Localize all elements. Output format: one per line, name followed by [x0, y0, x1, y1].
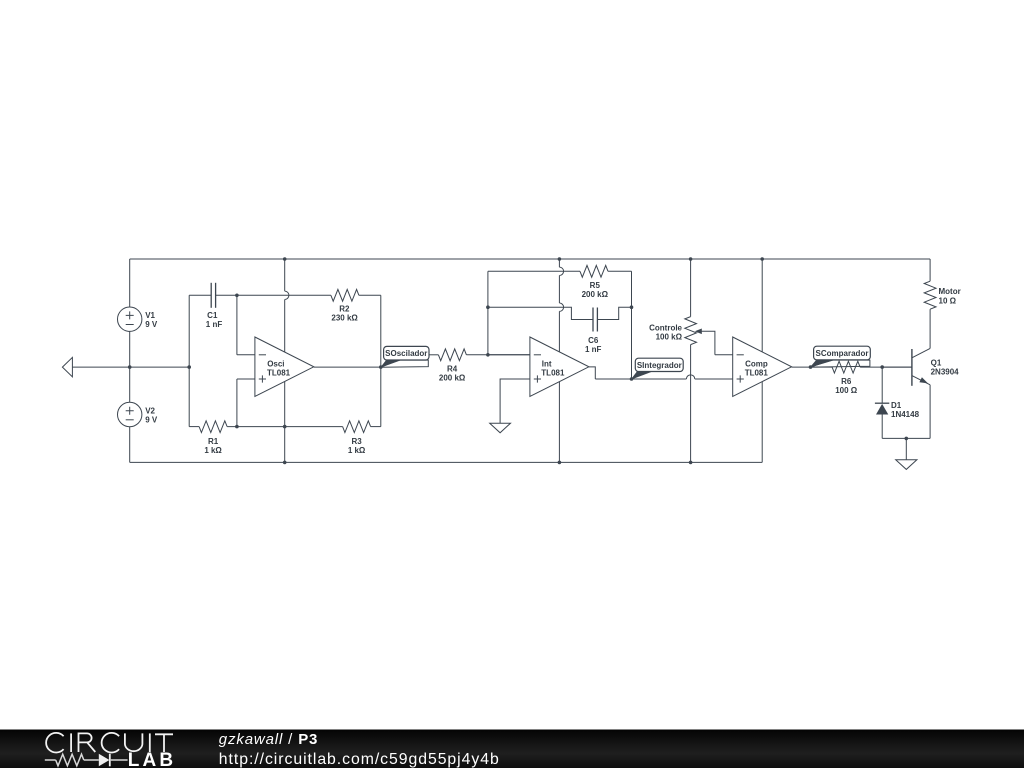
- svg-text:V1: V1: [145, 311, 155, 320]
- svg-text:200 kΩ: 200 kΩ: [439, 374, 466, 383]
- op-amp Comp TL081: [733, 337, 792, 397]
- resistor R6: [811, 366, 833, 368]
- svg-text:Q1: Q1: [931, 359, 942, 368]
- wire op-amp Comp output: [792, 366, 811, 368]
- svg-text:Int: Int: [542, 359, 552, 368]
- svg-text:R3: R3: [351, 437, 362, 446]
- svg-text:LAB: LAB: [128, 750, 176, 768]
- wire bottom supply rail: [130, 461, 763, 463]
- svg-text:1 kΩ: 1 kΩ: [204, 446, 222, 455]
- svg-text:100 Ω: 100 Ω: [835, 386, 858, 395]
- wire op-amp Int output step: [589, 367, 595, 379]
- resistor R2: [237, 294, 331, 296]
- net flag SIntegrador: [632, 372, 652, 380]
- wire op-amp Int inverting input: [488, 354, 530, 356]
- svg-text:R6: R6: [841, 377, 852, 386]
- wire V1 to top rail: [129, 259, 131, 307]
- svg-text:SOscilador: SOscilador: [385, 349, 427, 358]
- svg-text:Motor: Motor: [939, 287, 961, 296]
- wire R5-C6 right vertical: [631, 271, 633, 379]
- svg-text:10 Ω: 10 Ω: [939, 296, 957, 305]
- svg-text:200 kΩ: 200 kΩ: [582, 290, 609, 299]
- potentiometer Controle 100k: [690, 259, 692, 317]
- svg-text:1N4148: 1N4148: [891, 410, 920, 419]
- wire op-amp Osci V- supply pin: [284, 381, 286, 462]
- resistor R1: [189, 426, 199, 428]
- resistor Motor 10 ohm: [929, 259, 931, 281]
- svg-text:TL081: TL081: [745, 368, 769, 377]
- wire left loop vertical (ground leg): [188, 295, 190, 426]
- resistor R3: [343, 421, 371, 433]
- svg-text:R5: R5: [590, 281, 601, 290]
- wire emitter net: [882, 437, 930, 439]
- wire op-amp Osci output: [314, 366, 381, 368]
- transistor Q1 2N3904: [911, 349, 913, 386]
- wire op-amp Osci V+ supply pin: [284, 259, 286, 291]
- svg-text:9 V: 9 V: [145, 320, 158, 329]
- voltage source V1: [118, 307, 142, 331]
- wire op-amp Comp V+ supply pin: [761, 259, 763, 352]
- wire non-inverting node vertical: [236, 379, 238, 427]
- wire op-amp Comp inverting input: [715, 354, 733, 356]
- wire R3 right leg up to output node: [380, 367, 382, 427]
- wire mid (input) net: [72, 366, 189, 368]
- voltage source V2: [118, 402, 142, 426]
- svg-text:Comp: Comp: [745, 359, 768, 368]
- svg-text:SComparador: SComparador: [816, 349, 869, 358]
- wire R5-C6 left vertical: [487, 271, 489, 355]
- svg-text:R1: R1: [208, 437, 219, 446]
- svg-text:230 kΩ: 230 kΩ: [331, 314, 358, 323]
- wire V2 to bottom rail: [129, 427, 131, 463]
- svg-text:9 V: 9 V: [145, 416, 158, 425]
- wire op-amp Osci non-inverting input stub: [237, 378, 255, 380]
- net flag SOscilador: [381, 360, 429, 367]
- op-amp Osci TL081: [255, 337, 314, 397]
- svg-text:R2: R2: [339, 305, 350, 314]
- port arrow input terminal: [62, 357, 72, 376]
- svg-text:gzkawall / P3: gzkawall / P3: [219, 731, 318, 748]
- wire op-amp Int V+ supply pin: [558, 259, 560, 267]
- resistor R5: [488, 270, 580, 272]
- svg-text:R4: R4: [447, 365, 458, 374]
- svg-text:http://circuitlab.com/c59gd55p: http://circuitlab.com/c59gd55pj4y4b: [219, 751, 500, 768]
- svg-text:1 nF: 1 nF: [585, 345, 602, 354]
- svg-text:TL081: TL081: [541, 368, 565, 377]
- svg-text:TL081: TL081: [267, 368, 291, 377]
- CircuitLab logo: [46, 733, 173, 753]
- wire op-amp Osci inverting input stub: [237, 354, 255, 356]
- svg-text:C6: C6: [588, 336, 599, 345]
- op-amp Int TL081: [530, 337, 589, 397]
- wire op-amp Int V- supply pin: [558, 381, 560, 462]
- ground at op-amp Int non-inverting input: [500, 379, 530, 423]
- resistor R4: [429, 354, 438, 356]
- svg-text:2N3904: 2N3904: [931, 368, 960, 377]
- svg-text:C1: C1: [207, 311, 218, 320]
- ground at Q1 emitter: [905, 438, 907, 459]
- wire mid node to V2: [129, 367, 131, 402]
- wire inverting node vertical: [236, 295, 238, 355]
- svg-text:1 kΩ: 1 kΩ: [348, 446, 366, 455]
- svg-text:V2: V2: [145, 406, 155, 415]
- wire base of Q1: [882, 366, 912, 368]
- wire SIntegrador net (to Comp +): [595, 378, 686, 380]
- wire op-amp Comp V- supply pin: [761, 381, 763, 462]
- capacitor C1: [189, 294, 211, 296]
- svg-text:D1: D1: [891, 401, 902, 410]
- diode D1 1N4148: [881, 367, 883, 403]
- capacitor C6: [488, 307, 593, 319]
- wire top supply rail: [130, 258, 930, 260]
- wire V1 to mid node: [129, 331, 131, 367]
- svg-text:1 nF: 1 nF: [206, 320, 223, 329]
- svg-text:Osci: Osci: [267, 359, 284, 368]
- junction dots: [128, 365, 132, 369]
- svg-text:100 kΩ: 100 kΩ: [656, 333, 683, 342]
- net flag SComparador: [811, 360, 870, 367]
- wire R2 right leg down to output node: [380, 295, 382, 367]
- svg-text:Controle: Controle: [649, 323, 682, 332]
- svg-text:SIntegrador: SIntegrador: [637, 361, 682, 370]
